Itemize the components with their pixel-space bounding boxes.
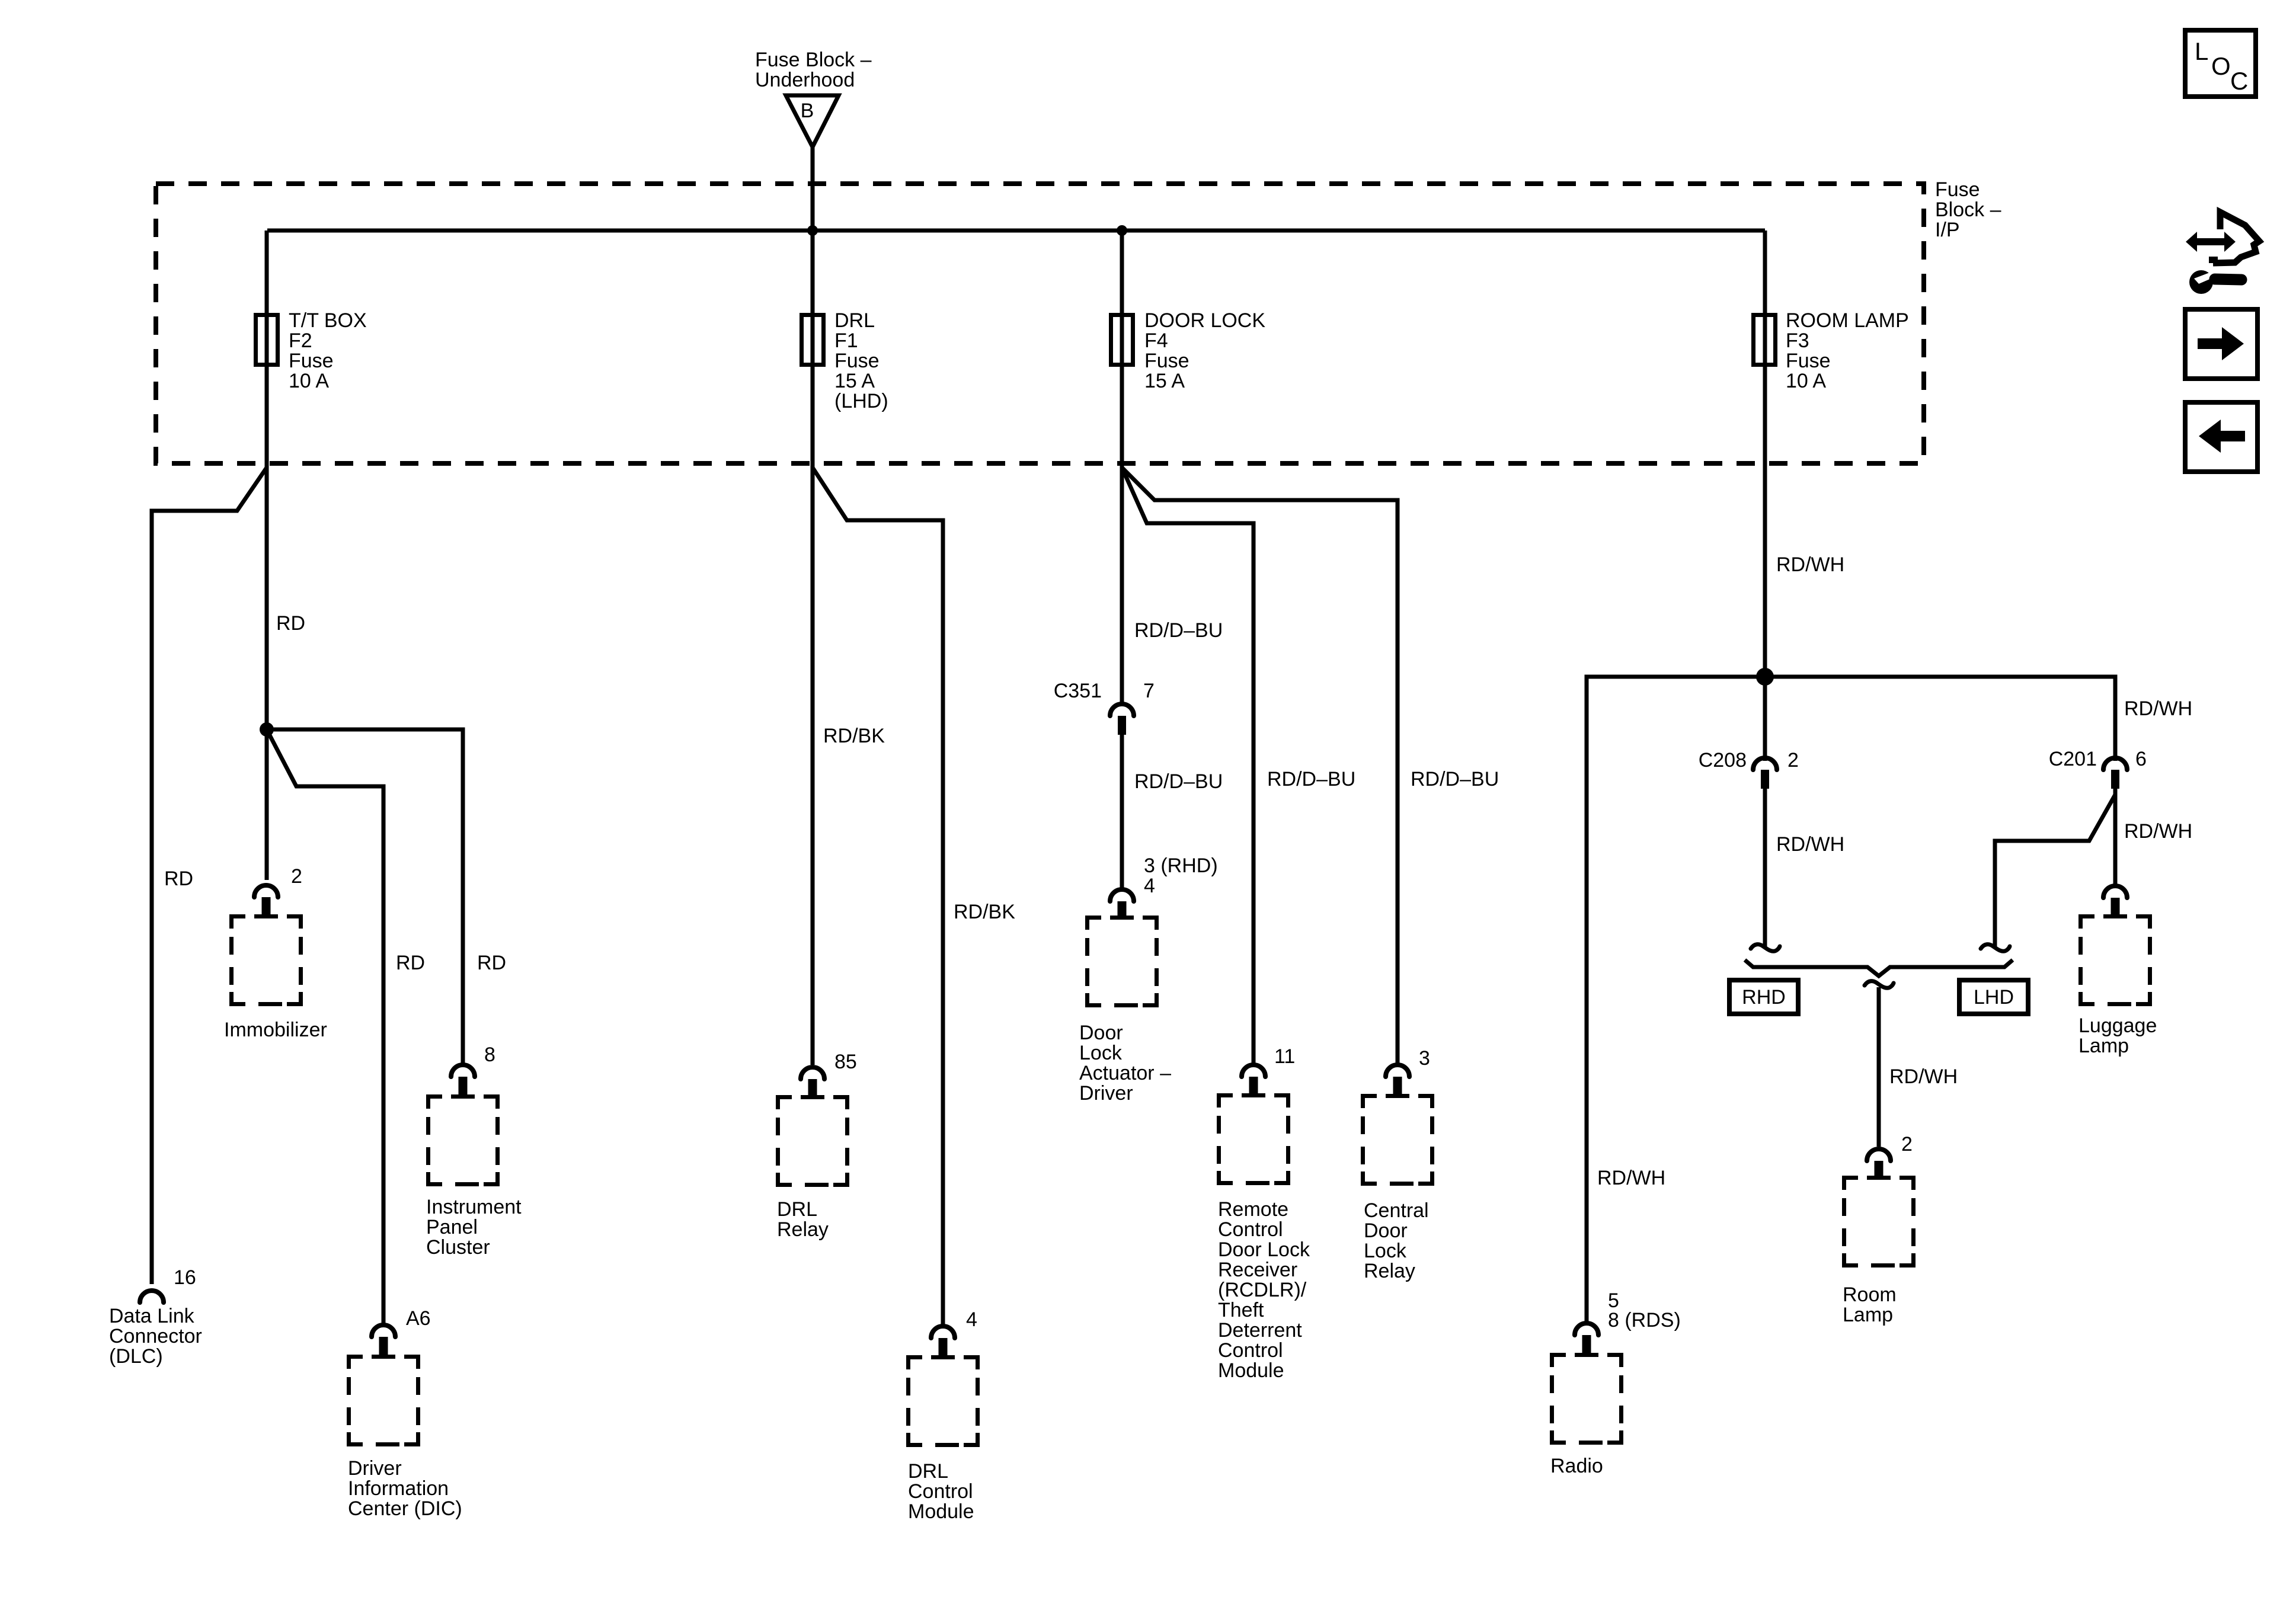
RHD option box	[1729, 980, 1798, 1014]
node bus/DRL junction	[807, 225, 818, 236]
svg-text:16: 16	[174, 1266, 196, 1289]
component box Luggage Lamp	[2081, 917, 2150, 1004]
connector Radio pin	[1575, 1323, 1598, 1335]
svg-text:C: C	[2230, 67, 2248, 95]
svg-text:RHD: RHD	[1742, 986, 1786, 1009]
svg-text:15 A: 15 A	[1144, 370, 1185, 392]
svg-text:Room: Room	[1843, 1283, 1897, 1306]
next-page arrow box	[2185, 309, 2257, 379]
svg-text:RD/WH: RD/WH	[1776, 833, 1844, 856]
svg-text:Underhood: Underhood	[755, 69, 855, 91]
svg-text:6: 6	[2135, 748, 2147, 770]
wire RD/WH to Radio	[1587, 677, 1765, 1321]
svg-text:85: 85	[834, 1051, 857, 1073]
vehicle data icon (double arrow, car outline, wrench)	[2186, 212, 2259, 294]
wire RD/WH C201 to LHD bracket	[1995, 795, 2115, 947]
connector Luggage Lamp	[2103, 886, 2127, 898]
svg-text:RD/D–BU: RD/D–BU	[1267, 768, 1355, 790]
svg-text:Immobilizer: Immobilizer	[224, 1019, 327, 1041]
component box DRL Relay	[778, 1097, 848, 1185]
wire from triangle B to bus	[811, 147, 815, 231]
svg-text:DRL: DRL	[908, 1460, 948, 1483]
svg-text:Door: Door	[1079, 1022, 1123, 1044]
svg-text:C208: C208	[1699, 749, 1747, 772]
svg-text:Fuse Block –: Fuse Block –	[755, 49, 872, 71]
wire RD/WH C208 to RHD bracket	[1763, 789, 1767, 947]
svg-text:Center (DIC): Center (DIC)	[348, 1497, 462, 1520]
svg-text:Door: Door	[1364, 1219, 1408, 1242]
svg-text:C351: C351	[1054, 680, 1102, 702]
svg-text:DOOR LOCK: DOOR LOCK	[1144, 309, 1265, 332]
svg-text:RD: RD	[396, 952, 425, 974]
svg-text:ROOM LAMP: ROOM LAMP	[1786, 309, 1909, 332]
svg-text:Fuse: Fuse	[1935, 178, 1980, 201]
component box Driver Information Center	[349, 1357, 418, 1445]
svg-text:C201: C201	[2049, 748, 2097, 770]
svg-text:Fuse: Fuse	[289, 350, 334, 372]
connector C351 pin 7	[1110, 704, 1134, 716]
svg-text:Lamp: Lamp	[2078, 1035, 2129, 1057]
svg-text:RD/WH: RD/WH	[1597, 1167, 1665, 1189]
connector Door Lock Actuator pin	[1110, 889, 1134, 901]
svg-text:Module: Module	[908, 1500, 974, 1523]
svg-text:2: 2	[291, 865, 302, 888]
svg-text:Panel: Panel	[426, 1216, 478, 1238]
svg-text:Driver: Driver	[348, 1457, 402, 1480]
svg-text:DRL: DRL	[777, 1198, 817, 1221]
svg-text:(RCDLR)/: (RCDLR)/	[1218, 1279, 1307, 1301]
svg-text:7: 7	[1143, 680, 1155, 702]
svg-text:Data Link: Data Link	[109, 1305, 195, 1327]
svg-text:8 (RDS): 8 (RDS)	[1608, 1309, 1681, 1331]
component box Door Lock Actuator - Driver	[1088, 918, 1157, 1006]
svg-text:Module: Module	[1218, 1359, 1284, 1382]
svg-text:2: 2	[1787, 749, 1799, 772]
svg-text:Information: Information	[348, 1477, 449, 1500]
svg-text:Fuse: Fuse	[1144, 350, 1189, 372]
component box Instrument Panel Cluster	[428, 1097, 498, 1185]
svg-text:F1: F1	[834, 329, 858, 352]
connector C208 pin 2	[1753, 758, 1777, 770]
connector Central Door Lock Relay pin 3	[1386, 1065, 1409, 1077]
svg-text:F2: F2	[289, 329, 312, 352]
connector RCDLR pin 11	[1242, 1065, 1265, 1077]
svg-text:RD/WH: RD/WH	[2124, 820, 2192, 843]
svg-text:I/P: I/P	[1935, 219, 1960, 241]
svg-text:Fuse: Fuse	[1786, 350, 1831, 372]
node bus/DOOR LOCK junction	[1117, 225, 1127, 236]
svg-text:Door Lock: Door Lock	[1218, 1238, 1310, 1261]
svg-text:RD: RD	[164, 868, 193, 890]
component box Central Door Lock Relay	[1363, 1096, 1432, 1184]
svg-text:8: 8	[484, 1044, 495, 1066]
LHD option box	[1959, 980, 2028, 1014]
wire RD/D-BU to RCDLR	[1122, 468, 1253, 1063]
svg-text:Connector: Connector	[109, 1325, 202, 1347]
bus wire inside fuse block	[267, 229, 1765, 233]
inline connector break (LHD side)	[1981, 945, 2010, 952]
wire RD to DIC	[267, 729, 383, 1323]
wire RD/BK to DRL Control Module	[813, 468, 943, 1324]
svg-text:RD/BK: RD/BK	[954, 901, 1015, 923]
component box RCDLR	[1219, 1096, 1288, 1183]
connector Room Lamp pin 2	[1867, 1149, 1891, 1161]
wire RD to Instrument Panel Cluster	[267, 729, 463, 1063]
node RD splice	[260, 722, 274, 737]
wire RD/WH to Room Lamp	[1877, 987, 1881, 1147]
inline connector break (room lamp feed)	[1865, 981, 1894, 988]
svg-text:RD/D–BU: RD/D–BU	[1134, 770, 1223, 793]
wire RD/WH C201 to Luggage Lamp	[2113, 789, 2118, 884]
svg-text:RD/BK: RD/BK	[823, 725, 885, 747]
svg-text:O: O	[2211, 52, 2231, 80]
svg-text:Lock: Lock	[1364, 1240, 1407, 1262]
fuse F4	[1111, 315, 1133, 365]
svg-text:RD/D–BU: RD/D–BU	[1134, 619, 1223, 642]
svg-text:Luggage: Luggage	[2078, 1014, 2157, 1037]
svg-text:LHD: LHD	[1974, 986, 2014, 1009]
LOC legend box	[2185, 30, 2256, 97]
svg-text:RD: RD	[276, 612, 305, 635]
connector C201 pin 6	[2103, 758, 2127, 770]
svg-text:Cluster: Cluster	[426, 1236, 490, 1259]
svg-text:4: 4	[1144, 875, 1155, 897]
svg-text:L: L	[2195, 37, 2208, 65]
svg-text:Actuator –: Actuator –	[1079, 1062, 1171, 1084]
svg-text:Theft: Theft	[1218, 1299, 1264, 1321]
fuse block I/P dashed boundary	[156, 184, 1924, 463]
svg-text:F3: F3	[1786, 329, 1809, 352]
svg-text:RD/WH: RD/WH	[1776, 553, 1844, 576]
svg-text:3 (RHD): 3 (RHD)	[1144, 854, 1218, 877]
component box Radio	[1552, 1355, 1622, 1443]
svg-text:Fuse: Fuse	[834, 350, 880, 372]
svg-text:2: 2	[1901, 1133, 1913, 1156]
wire RD/D-BU to Central Door Lock Relay	[1122, 468, 1398, 1063]
component box DRL Control Module	[909, 1358, 978, 1445]
svg-text:Control: Control	[1218, 1218, 1283, 1241]
svg-text:Relay: Relay	[1364, 1260, 1415, 1282]
svg-text:Lock: Lock	[1079, 1042, 1123, 1064]
wire RD/WH to C201	[1765, 677, 2115, 761]
svg-text:RD/WH: RD/WH	[1889, 1065, 1958, 1088]
wire F3 branch vertical	[1763, 231, 1767, 761]
svg-text:15 A: 15 A	[834, 370, 875, 392]
svg-text:Lamp: Lamp	[1843, 1304, 1893, 1326]
connector DIC pin A6	[372, 1325, 395, 1337]
svg-text:3: 3	[1419, 1047, 1430, 1070]
inline connector break (RHD side)	[1751, 945, 1780, 952]
svg-text:10 A: 10 A	[289, 370, 329, 392]
connector IPC pin 8	[451, 1065, 475, 1077]
wire RD/D-BU C351 to actuator	[1120, 735, 1124, 889]
component box Immobilizer	[232, 917, 301, 1004]
svg-text:Control: Control	[1218, 1339, 1283, 1362]
svg-text:11: 11	[1274, 1045, 1295, 1068]
svg-text:Remote: Remote	[1218, 1198, 1288, 1221]
svg-text:4: 4	[966, 1308, 977, 1331]
svg-text:Central: Central	[1364, 1199, 1429, 1222]
svg-text:RD/D–BU: RD/D–BU	[1411, 768, 1499, 790]
svg-text:Deterrent: Deterrent	[1218, 1319, 1302, 1342]
connector Immobilizer pin 2	[254, 885, 278, 897]
fuse F1	[802, 315, 824, 365]
svg-text:(DLC): (DLC)	[109, 1345, 163, 1368]
svg-text:Control: Control	[908, 1480, 973, 1503]
wire F4 branch vertical	[1120, 231, 1124, 706]
bracket RHD/LHD selector	[1745, 960, 2013, 976]
wire F1 branch vertical	[811, 231, 815, 1065]
node RD/WH splice	[1756, 668, 1774, 686]
fuse F2	[256, 315, 278, 365]
svg-text:Instrument: Instrument	[426, 1196, 522, 1218]
wire F2 branch vertical	[265, 231, 269, 880]
power feed triangle B	[786, 95, 839, 147]
svg-text:RD: RD	[477, 952, 506, 974]
svg-text:(LHD): (LHD)	[834, 390, 888, 412]
wire RD to DLC	[152, 468, 267, 1284]
fuse F3	[1754, 315, 1776, 365]
svg-text:RD/WH: RD/WH	[2124, 697, 2192, 720]
svg-text:B: B	[801, 100, 814, 122]
svg-text:10 A: 10 A	[1786, 370, 1826, 392]
svg-text:Block –: Block –	[1935, 199, 2001, 221]
connector DRL Control Module pin 4	[931, 1326, 955, 1338]
svg-text:Relay: Relay	[777, 1218, 829, 1241]
svg-text:Radio: Radio	[1550, 1455, 1603, 1477]
svg-text:A6: A6	[406, 1307, 431, 1330]
svg-text:Receiver: Receiver	[1218, 1259, 1297, 1281]
connector DLC pin 16	[140, 1291, 164, 1302]
svg-text:DRL: DRL	[834, 309, 875, 332]
svg-text:F4: F4	[1144, 329, 1168, 352]
previous-page arrow box	[2185, 402, 2257, 472]
connector DRL Relay pin 85	[801, 1067, 824, 1079]
component box Room Lamp	[1844, 1178, 1914, 1266]
svg-text:Driver: Driver	[1079, 1082, 1133, 1105]
svg-text:T/T BOX: T/T BOX	[289, 309, 367, 332]
